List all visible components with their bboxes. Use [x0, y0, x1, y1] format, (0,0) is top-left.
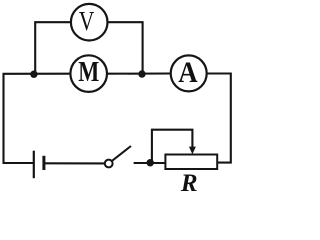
wire battery to switch: [45, 162, 105, 164]
wire slider arm: [152, 130, 193, 162]
svg-text:A: A: [178, 56, 198, 89]
wire middle horizontal left (rail corner to motor): [3, 73, 71, 75]
wire bottom left (rail to battery): [3, 162, 34, 164]
rheostat R body: [165, 155, 217, 170]
motor M circle: [70, 55, 107, 92]
node B junction dot: [138, 70, 145, 77]
ammeter A circle: [171, 55, 207, 91]
battery cell short plate: [42, 156, 45, 170]
switch pivot circle: [105, 160, 113, 168]
wire left rail vertical: [2, 74, 4, 163]
svg-text:M: M: [78, 56, 99, 88]
wire motor to ammeter: [108, 72, 171, 74]
svg-text:V: V: [79, 6, 95, 36]
wire voltmeter branch right (V to node B): [108, 22, 143, 73]
wire ammeter to right rail: [207, 74, 231, 163]
switch lever: [112, 146, 131, 161]
node C junction dot (rheostat tap): [147, 159, 154, 166]
wire switch contact to rheostat: [134, 162, 166, 164]
voltmeter V circle: [71, 4, 108, 41]
rheostat slider arrowhead: [189, 147, 196, 155]
node A junction dot: [30, 71, 37, 78]
svg-text:R: R: [180, 170, 198, 197]
battery cell long plate: [33, 151, 35, 179]
wire voltmeter branch left (node A up and right to V): [35, 22, 71, 74]
